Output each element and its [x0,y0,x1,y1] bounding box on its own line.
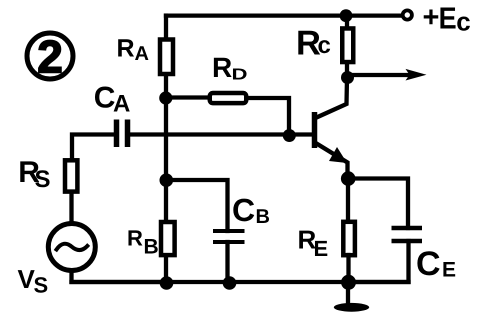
wire base line [131,132,313,136]
ground [346,282,350,303]
node RB top / CB branch [160,173,174,187]
wire RD right [249,98,290,135]
node collector output [341,71,354,84]
svg-text:E: E [439,2,457,36]
svg-text:S: S [35,166,51,193]
wire RA bottom to node [164,76,168,99]
svg-text:R: R [127,226,143,251]
wire RD left [166,95,208,99]
node ground [341,275,356,290]
node RD to base [283,129,296,142]
resistor RB [161,222,175,255]
wire divider vertical [164,98,168,221]
source Vs [48,224,95,271]
figure number badge 2 [27,31,73,83]
wire CE top branch [348,179,408,229]
node base divider [159,91,172,104]
resistor RA [160,40,173,75]
transistor Q1 base bar [312,112,318,148]
wire bottom rail [72,280,409,284]
resistor Rc [342,28,353,62]
wire CB branch [166,180,228,231]
output arrowhead [406,69,427,81]
svg-text:C: C [232,192,255,228]
svg-text:+: + [423,1,440,33]
wire CE bottom return [348,241,409,282]
wire top rail [166,13,403,17]
transistor emitter lead [317,144,348,179]
svg-text:B: B [256,206,270,228]
node emitter [341,171,356,186]
svg-text:R: R [212,52,232,83]
wire emitter to RE [346,179,350,223]
capacitor CB [213,231,245,242]
svg-text:D: D [232,66,248,83]
svg-text:2: 2 [37,31,63,83]
transistor collector lead [317,78,348,118]
svg-text:E: E [442,259,456,282]
terminal +Ec [403,10,412,19]
wire output arrow line [346,73,412,77]
svg-text:c: c [456,7,470,37]
svg-text:C: C [416,245,441,283]
resistor RE [343,222,355,255]
resistor RD [210,93,247,103]
svg-text:B: B [144,236,159,259]
transistor emitter arrowhead [329,147,347,163]
wire CA to RS corner [72,135,114,162]
wire RE bottom [346,255,350,282]
wire CB bottom stub [225,242,229,282]
capacitor CA [117,120,128,148]
resistor RS [65,160,77,191]
svg-text:A: A [113,91,130,118]
svg-text:c: c [318,32,331,59]
wire RA top stub [164,16,168,38]
node CB bottom [223,276,237,290]
wire Vs to bottom rail [72,271,167,282]
capacitor CE [392,228,423,241]
node RB bottom [160,276,174,290]
wire Rc bottom stub [345,65,349,79]
wire RS to Vs [69,194,73,224]
svg-text:R: R [117,34,135,62]
svg-text:S: S [34,273,49,298]
svg-text:A: A [135,43,149,65]
node Rc top [340,9,353,22]
svg-text:E: E [314,236,329,261]
wire Rc top stub [345,16,349,27]
wire RB bottom [164,257,168,282]
